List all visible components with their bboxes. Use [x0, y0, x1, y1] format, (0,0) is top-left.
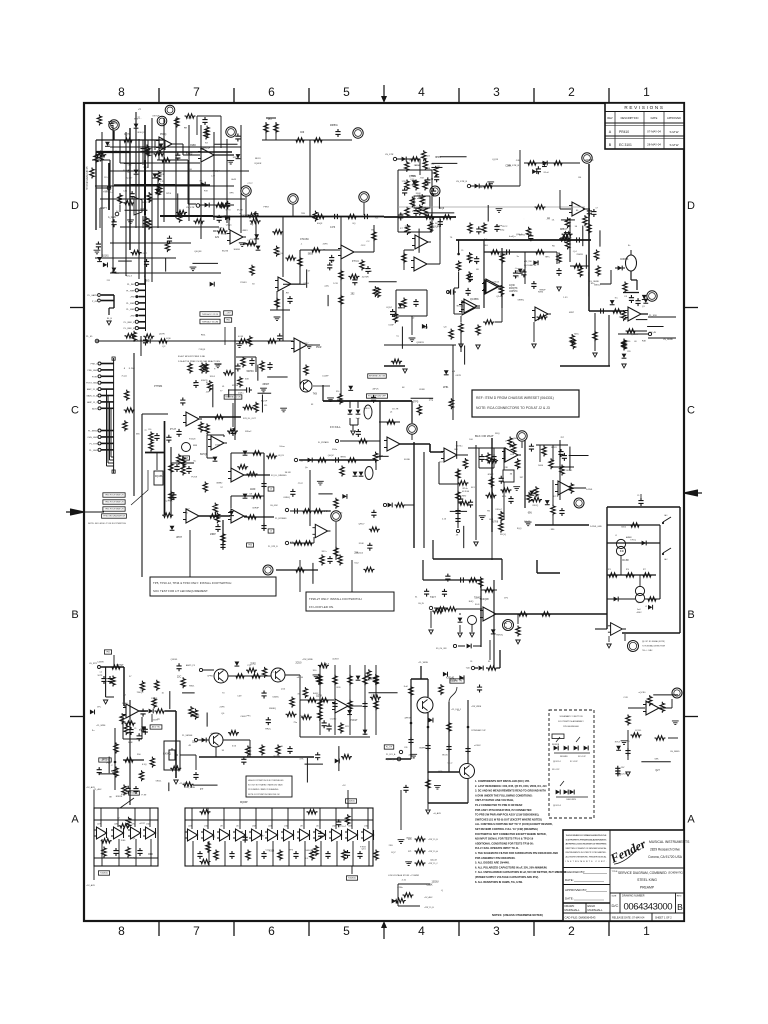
svg-text:CHECKED BY:: CHECKED BY:	[565, 870, 585, 874]
svg-text:PCB ASSY 25TH DISK474500, P2 C: PCB ASSY 25TH DISK474500, P2 CONNECTED	[475, 808, 532, 812]
svg-text:+PL_WIRE: +PL_WIRE	[96, 725, 106, 727]
svg-text:PL_REF: PL_REF	[126, 303, 135, 305]
svg-text:IF ALT MOUNT PREF D BE: IF ALT MOUNT PREF D BE	[178, 355, 206, 358]
svg-text:D M ALTVE PREF I M W CAN REAC: D M ALTVE PREF I M W CAN REACTORS	[178, 360, 221, 363]
svg-text:84u63: 84u63	[524, 521, 531, 523]
svg-text:S M W: S M W	[670, 143, 679, 147]
svg-text:R75: R75	[608, 569, 611, 571]
svg-text:C9: C9	[134, 728, 136, 730]
svg-text:8F4QC: 8F4QC	[137, 132, 144, 134]
svg-text:1.F1: 1.F1	[563, 297, 568, 299]
svg-text:7KK3: 7KK3	[614, 741, 620, 743]
svg-text:745C: 745C	[574, 333, 580, 335]
svg-text:BLK OR WHT: BLK OR WHT	[475, 434, 494, 438]
svg-text:PL_65: PL_65	[86, 336, 93, 338]
svg-text:K5uuR: K5uuR	[221, 234, 228, 236]
svg-text:4. THE SCHEMATIC FILTER FOR FA: 4. THE SCHEMATIC FILTER FOR FABRICATION …	[475, 851, 558, 855]
svg-text:KD_CH_OFF: KD_CH_OFF	[436, 648, 448, 650]
svg-text:FKC: FKC	[498, 289, 503, 291]
svg-text:C2CRK: C2CRK	[621, 774, 629, 776]
svg-text:CF8R: CF8R	[419, 389, 425, 391]
svg-text:RC LOOP: RC LOOP	[570, 761, 578, 763]
svg-text:FULLY RAIL OPERATE INPUT TO J1: FULLY RAIL OPERATE INPUT TO J1.	[475, 846, 519, 850]
svg-text:2F72Q: 2F72Q	[414, 165, 421, 167]
svg-text:NO INPUT SIGNAL FOR TESTS TP1: NO INPUT SIGNAL FOR TESTS TP1-5 & TP13-1…	[475, 837, 534, 841]
svg-text:NOTES: (UNLESS OTHERWISE NOTE: NOTES: (UNLESS OTHERWISE NOTED)	[492, 913, 543, 917]
svg-text:9QU86.: 9QU86.	[155, 476, 163, 478]
svg-text:0.QKF: 0.QKF	[322, 376, 329, 378]
svg-text:.R5KC: .R5KC	[487, 474, 494, 476]
svg-text:CFR5: CFR5	[207, 675, 213, 677]
svg-text:U4P97C: U4P97C	[509, 291, 518, 293]
svg-text:FX LOOP LED ON.: FX LOOP LED ON.	[309, 605, 334, 609]
svg-text:uRF4K: uRF4K	[404, 718, 411, 720]
svg-text:60QF: 60QF	[317, 223, 323, 225]
svg-text:PL_REF: PL_REF	[126, 290, 135, 292]
svg-text:FX KILL: FX KILL	[330, 425, 341, 429]
svg-text:91F4: 91F4	[210, 376, 216, 378]
svg-text:T4CT: T4CT	[430, 597, 436, 599]
svg-text:R14u: R14u	[463, 488, 469, 490]
svg-text:B: B	[71, 609, 78, 621]
svg-text:PL_RTN: PL_RTN	[90, 443, 98, 445]
svg-text:SOC TEST FOR LIT LED REQUIREME: SOC TEST FOR LIT LED REQUIREMENT.	[153, 589, 208, 593]
svg-text:8P95: 8P95	[435, 157, 441, 159]
svg-text:R77: R77	[643, 569, 646, 571]
svg-text:LN_SEND: LN_SEND	[663, 339, 674, 341]
svg-text:QRC7: QRC7	[358, 524, 365, 526]
svg-text:7R: 7R	[369, 271, 372, 273]
svg-text:D: D	[71, 200, 79, 212]
svg-text:A/DD TSL: A/DD TSL	[152, 726, 160, 729]
svg-text:9.4uu: 9.4uu	[279, 446, 285, 448]
svg-text:8: 8	[118, 85, 125, 99]
svg-text:JA-2: JA-2	[664, 558, 668, 561]
svg-text:85236: 85236	[222, 250, 229, 252]
svg-text:F85u2: F85u2	[245, 431, 252, 433]
svg-text:4Q70R: 4Q70R	[362, 277, 369, 279]
svg-text:PRE_C: PRE_C	[91, 364, 98, 366]
svg-text:+PL_WIRE: +PL_WIRE	[418, 662, 429, 664]
svg-text:43 RGE: 43 RGE	[462, 491, 470, 493]
svg-text:u5440: u5440	[210, 733, 217, 735]
svg-text:RR: RR	[184, 127, 188, 129]
svg-text:CC1R.: CC1R.	[635, 730, 642, 732]
svg-text:2CU0: 2CU0	[295, 662, 302, 664]
svg-text:C459K: C459K	[97, 662, 104, 664]
svg-text:KR0K: KR0K	[140, 209, 146, 211]
svg-text:PL_DLY_A: PL_DLY_A	[386, 753, 396, 756]
svg-text:0R97: 0R97	[569, 312, 575, 314]
svg-text:C.P3: C.P3	[330, 227, 336, 229]
svg-text:SCHEMATIC 3 BUTTON: SCHEMATIC 3 BUTTON	[560, 715, 583, 718]
svg-text:CH_SEND: CH_SEND	[670, 751, 680, 753]
svg-text:(3) ROD-3: (3) ROD-3	[553, 805, 561, 807]
svg-text:7: 7	[193, 85, 200, 99]
svg-text:.Q: .Q	[441, 890, 444, 892]
svg-text:8. ALL RESISTORS IN OHMS, 5%,: 8. ALL RESISTORS IN OHMS, 5%, 1/4W.	[475, 880, 523, 884]
svg-text:FX LOOP: FX LOOP	[552, 769, 560, 771]
svg-text:4: 4	[418, 924, 425, 938]
svg-text:EC 3101: EC 3101	[619, 143, 632, 147]
svg-text:PL_REF_F: PL_REF_F	[124, 322, 135, 324]
svg-text:FQC6: FQC6	[468, 257, 475, 259]
svg-text:1K.7R: 1K.7R	[392, 409, 398, 411]
svg-text:F0.F.: F0.F.	[475, 604, 480, 606]
svg-text:(SCHEMATIC): (SCHEMATIC)	[668, 872, 683, 875]
svg-text:REVISIONS: REVISIONS	[624, 105, 664, 110]
svg-text:PL_BYPASS: PL_BYPASS	[275, 517, 287, 520]
svg-text:R4K: R4K	[642, 341, 647, 343]
svg-text:BLK: BLK	[484, 245, 489, 247]
svg-text:F..99: F..99	[142, 794, 148, 796]
svg-text:F567: F567	[412, 211, 418, 213]
svg-text:MARSHALL: MARSHALL	[565, 908, 581, 912]
svg-text:1CR: 1CR	[333, 283, 338, 285]
svg-text:A DVM UNDER THE FOLLOWING COND: A DVM UNDER THE FOLLOWING CONDITIONS:	[475, 793, 533, 797]
svg-text:CH_IN: CH_IN	[418, 603, 424, 605]
svg-text:ADDITIONAL CONDITIONS FOR TEST: ADDITIONAL CONDITIONS FOR TESTS TP16-50:	[475, 841, 534, 845]
svg-text:TLA300L: TLA300L	[100, 872, 109, 875]
svg-text:(3) ROD-1: (3) ROD-1	[553, 761, 561, 763]
svg-text:CT1C6C: CT1C6C	[300, 239, 309, 241]
svg-text:CAD FILE: DM00064343: CAD FILE: DM00064343	[565, 916, 596, 920]
svg-text:F9K9: F9K9	[264, 207, 270, 209]
svg-text:FC.8: FC.8	[553, 496, 559, 498]
svg-text:TLA300L: TLA300L	[348, 877, 357, 880]
svg-text:LN_STR: LN_STR	[385, 154, 394, 156]
svg-text:APPROVED: APPROVED	[667, 117, 681, 120]
svg-text:.54PKC: .54PKC	[246, 371, 254, 373]
svg-text:REVERB: REVERB	[552, 744, 560, 746]
svg-text:KQ57: KQ57	[386, 307, 392, 309]
svg-text:42.7: 42.7	[515, 277, 520, 279]
svg-text:KC: KC	[615, 297, 618, 299]
svg-text:2Q4FR: 2Q4FR	[254, 163, 261, 165]
svg-text:77KQ: 77KQ	[630, 540, 636, 542]
svg-text:2: 2	[568, 924, 575, 938]
svg-text:K30140: K30140	[446, 678, 455, 680]
svg-text:F10F: F10F	[359, 543, 365, 545]
svg-text:C30: C30	[148, 429, 151, 431]
svg-text:INSTRUMENTS CORP.: INSTRUMENTS CORP.	[566, 861, 607, 863]
svg-text:3FQQ: 3FQQ	[500, 534, 506, 536]
svg-text:2829 Research Drive: 2829 Research Drive	[650, 848, 680, 852]
svg-text:97F0: 97F0	[166, 193, 172, 195]
svg-text:4KK: 4KK	[168, 501, 173, 503]
svg-text:61PQU: 61PQU	[200, 454, 208, 456]
svg-text:REF: ITEM D FROM CHASSIS WIRE: REF: ITEM D FROM CHASSIS WIRESET (064331…	[476, 396, 554, 400]
svg-text:0u4Qu: 0u4Qu	[509, 236, 516, 238]
svg-text:5684: 5684	[538, 465, 544, 467]
svg-text:C/PWR AMP CLIP: C/PWR AMP CLIP	[471, 729, 487, 732]
svg-text:PWR: PWR	[316, 347, 322, 349]
svg-text:4: 4	[418, 85, 425, 99]
svg-text:215K3: 215K3	[240, 282, 247, 284]
svg-text:RQ06P: RQ06P	[240, 802, 248, 804]
svg-text:+5V_WIRE: +5V_WIRE	[185, 787, 196, 789]
svg-text:AMP1_P5: AMP1_P5	[186, 664, 196, 667]
svg-text:R44C: R44C	[313, 693, 319, 695]
svg-text:867Q: 867Q	[130, 858, 136, 860]
svg-text:63F.8: 63F.8	[304, 283, 310, 285]
svg-text:CQ: CQ	[164, 500, 168, 502]
svg-text:7QR: 7QR	[238, 831, 243, 833]
svg-text:9R89.: 9R89.	[340, 457, 346, 459]
svg-text:D-PHS: D-PHS	[586, 489, 593, 491]
svg-text:C58K: C58K	[505, 166, 511, 168]
svg-text:0064343000: 0064343000	[624, 902, 673, 913]
svg-text:AUX1: AUX1	[92, 407, 98, 410]
svg-text:PREAMP: PREAMP	[640, 886, 655, 890]
svg-text:PCK1T: PCK1T	[350, 720, 358, 722]
svg-text:5uK1: 5uK1	[399, 214, 405, 216]
svg-text:9990F: 9990F	[539, 290, 546, 292]
svg-text:Q27: Q27	[655, 770, 660, 772]
svg-text:6K.98: 6K.98	[237, 210, 243, 212]
svg-text:+PW_WIRE: +PW_WIRE	[302, 659, 313, 661]
svg-text:B: B	[687, 609, 694, 621]
svg-text:PL_REF: PL_REF	[126, 309, 135, 311]
svg-text:6. ALL POLARIZED CAPACITORS IN: 6. ALL POLARIZED CAPACITORS IN uF, 25V, …	[475, 865, 548, 869]
svg-text:L1: L1	[615, 535, 617, 537]
svg-text:805u1: 805u1	[566, 470, 573, 472]
svg-text:R1K8: R1K8	[533, 262, 539, 264]
svg-text:C: C	[71, 405, 79, 417]
svg-text:K918: K918	[269, 851, 275, 853]
svg-text:82u87: 82u87	[423, 214, 430, 216]
svg-text:713QK: 713QK	[198, 349, 205, 351]
svg-text:LN_STR_B: LN_STR_B	[456, 181, 468, 183]
svg-text:UP9T: UP9T	[176, 537, 182, 539]
svg-text:LN_STR: LN_STR	[186, 207, 195, 209]
svg-text:DATE:: DATE:	[565, 897, 574, 901]
svg-text:CCK: CCK	[623, 697, 628, 699]
svg-text:5C: 5C	[193, 461, 196, 463]
svg-text:.67K: .67K	[299, 758, 304, 760]
svg-text:22C: 22C	[177, 676, 182, 678]
svg-text:PL_GND: PL_GND	[89, 450, 98, 452]
svg-text:QC: QC	[162, 346, 166, 348]
svg-text:TLA300L: TLA300L	[130, 792, 138, 795]
svg-text:QQ19: QQ19	[492, 159, 499, 161]
svg-text:83CQ: 83CQ	[533, 505, 539, 507]
svg-text:3.46F: 3.46F	[388, 324, 394, 326]
svg-text:R821: R821	[189, 685, 195, 687]
svg-text:81u4: 81u4	[544, 172, 550, 174]
svg-text:K927u: K927u	[233, 157, 240, 159]
svg-text:R0K9u: R0K9u	[496, 634, 503, 636]
svg-text:RR2u: RR2u	[265, 729, 271, 731]
svg-text:CKC: CKC	[361, 245, 366, 247]
svg-text:436C9: 436C9	[201, 380, 208, 382]
svg-text:2.K65: 2.K65	[409, 159, 415, 161]
svg-text:POST_GND: POST_GND	[86, 383, 98, 385]
svg-text:QRR33: QRR33	[416, 342, 424, 344]
svg-text:ALL CONTROLS FORTUNE SET TO '0: ALL CONTROLS FORTUNE SET TO '0' (CCW) EX…	[475, 822, 553, 826]
svg-text:K9.: K9.	[264, 405, 268, 407]
svg-text:836RQ: 836RQ	[269, 708, 276, 710]
svg-text:6: 6	[268, 924, 275, 938]
svg-text:RELEASE DATE: 07-MAY-04: RELEASE DATE: 07-MAY-04	[612, 917, 645, 920]
svg-text:RRK: RRK	[148, 854, 153, 856]
svg-text:R66.: R66.	[201, 334, 206, 336]
svg-text:F42u8: F42u8	[189, 439, 196, 441]
svg-text:1QKu: 1QKu	[238, 393, 244, 395]
svg-text:PL_STR_B: PL_STR_B	[268, 546, 278, 548]
svg-text:D: D	[687, 200, 695, 212]
svg-text:C03P16: C03P16	[620, 259, 629, 261]
svg-text:444C: 444C	[636, 612, 642, 614]
svg-text:P1-2 CONNECTED TO PRE D OR REA: P1-2 CONNECTED TO PRE D OR REAR	[475, 803, 523, 807]
svg-text:00Q5: 00Q5	[337, 399, 343, 401]
svg-text:49R3: 49R3	[242, 230, 248, 232]
svg-text:2K5: 2K5	[145, 281, 150, 283]
svg-text:6: 6	[268, 85, 275, 99]
svg-text:FX LOOP LED OFF: FX LOOP LED OFF	[368, 396, 386, 398]
svg-text:868FF: 868FF	[419, 748, 426, 750]
svg-text:ATE_TED: ATE_TED	[524, 260, 533, 263]
svg-text:UNIT AT RATED LINE VOLTAGE,: UNIT AT RATED LINE VOLTAGE,	[475, 798, 514, 802]
svg-text:68K12: 68K12	[594, 284, 601, 286]
svg-text:DRAWING NUMBER: DRAWING NUMBER	[622, 895, 645, 898]
svg-text:7F4QC: 7F4QC	[137, 692, 144, 694]
svg-text:98.05: 98.05	[442, 754, 448, 756]
svg-text:PRE_GND: PRE_GND	[87, 370, 98, 372]
svg-text:THE INFORMATION CONTAINED HERE: THE INFORMATION CONTAINED HEREWITH IS TH…	[566, 834, 608, 837]
svg-text:uu8u: uu8u	[324, 285, 330, 287]
svg-text:REV: REV	[607, 116, 613, 120]
svg-text:13.: 13.	[552, 220, 555, 222]
svg-text:02K37: 02K37	[121, 794, 128, 796]
svg-text:+PW_15_B: +PW_15_B	[428, 839, 438, 841]
svg-text:JA-1: JA-1	[664, 514, 668, 517]
svg-text:28-MAY-04: 28-MAY-04	[647, 142, 661, 146]
svg-text:3: 3	[493, 924, 500, 938]
svg-text:DESCRIPTION: DESCRIPTION	[621, 116, 639, 120]
svg-text:A_GND: A_GND	[108, 216, 116, 219]
svg-text:78Fu: 78Fu	[545, 257, 551, 259]
svg-text:ALL RIGHTS RESERVED. FENDER MU: ALL RIGHTS RESERVED. FENDER MUSICAL	[566, 856, 608, 859]
svg-text:79.: 79.	[212, 837, 216, 839]
svg-text:Q67R: Q67R	[159, 333, 165, 335]
svg-text:2: 2	[568, 85, 575, 99]
svg-text:36.5R: 36.5R	[285, 472, 291, 474]
svg-text:NOTE: RCA CONNECTORS TO PCB AT: NOTE: RCA CONNECTORS TO PCB AT J2 & J3	[476, 406, 550, 410]
svg-text:SHEET 1 OF 2: SHEET 1 OF 2	[655, 917, 672, 920]
svg-text:8UR: 8UR	[423, 328, 428, 330]
svg-text:6C0Q08: 6C0Q08	[480, 599, 489, 601]
svg-text:17Q: 17Q	[429, 399, 434, 401]
svg-text:Q4Q58: Q4Q58	[194, 251, 202, 253]
svg-text:CHN_GND: CHN_GND	[87, 437, 98, 439]
svg-text:9KQ35: 9KQ35	[456, 305, 464, 307]
svg-text:TP34 FOOTSWITCH: TP34 FOOTSWITCH	[105, 502, 124, 504]
svg-text:Q5395: Q5395	[631, 334, 638, 336]
svg-text:+PW_WIRE: +PW_WIRE	[471, 706, 482, 708]
svg-text:5: 5	[343, 85, 350, 99]
svg-text:C26: C26	[404, 747, 407, 749]
svg-text:CC.2: CC.2	[447, 762, 453, 764]
svg-text:483QTK: 483QTK	[509, 288, 518, 290]
svg-text:CH_GN2: CH_GN2	[270, 505, 278, 507]
svg-text:488531: 488531	[330, 125, 338, 127]
svg-text:7Q9.3: 7Q9.3	[368, 679, 375, 681]
svg-text:0R: 0R	[476, 269, 479, 271]
svg-text:R3818: R3818	[116, 796, 123, 798]
svg-text:RRQK: RRQK	[112, 123, 119, 125]
svg-text:22F6: 22F6	[220, 707, 226, 709]
svg-text:C2Ru: C2Ru	[397, 887, 403, 889]
svg-text:+PW_15_C: +PW_15_C	[428, 863, 438, 865]
svg-text:+5V_AUX: +5V_AUX	[424, 896, 433, 899]
svg-text:2. LAST REFERENCE: C80, R45, Q: 2. LAST REFERENCE: C80, R45, Q5 P4, CR4,…	[475, 784, 547, 788]
svg-text:7C4.: 7C4.	[300, 715, 305, 717]
svg-text:uK534: uK534	[297, 677, 304, 679]
svg-text:REVERB LED ON: REVERB LED ON	[369, 376, 386, 378]
svg-text:3TP5: 3TP5	[413, 401, 419, 403]
svg-text:uQC80: uQC80	[638, 692, 646, 694]
svg-text:PL_SENSE: PL_SENSE	[182, 735, 193, 737]
svg-text:C5410: C5410	[330, 719, 337, 721]
svg-text:00820: 00820	[363, 408, 370, 410]
svg-text:.24K: .24K	[515, 160, 520, 162]
svg-text:57.: 57.	[108, 145, 111, 147]
svg-text:D/C: D/C	[612, 903, 619, 908]
svg-text:NOTE: NO LEDS LIT ON FOOTSWIT: NOTE: NO LEDS LIT ON FOOTSWITCH	[88, 523, 126, 525]
svg-text:R6: R6	[488, 661, 490, 663]
svg-text:8C6u6: 8C6u6	[357, 552, 364, 554]
svg-text:2.205: 2.205	[371, 695, 377, 697]
svg-text:C9: C9	[461, 250, 463, 252]
svg-text:559TT: 559TT	[100, 208, 107, 210]
svg-text:057R: 057R	[456, 375, 462, 377]
svg-text:1679: 1679	[97, 675, 103, 677]
svg-text:HIGH FOOTSWITCH IS NOT INSTALL: HIGH FOOTSWITCH IS NOT INSTALLED	[248, 779, 284, 782]
svg-text:7086: 7086	[120, 840, 126, 842]
svg-text:C6: C6	[470, 661, 472, 663]
svg-text:58K: 58K	[655, 759, 659, 761]
svg-text:3. DC AND NO MEASUREMENTS READ: 3. DC AND NO MEASUREMENTS READ TO GROUND…	[475, 789, 546, 793]
svg-text:R4Q: R4Q	[469, 601, 474, 603]
svg-text:CQ: CQ	[265, 850, 269, 852]
svg-text:SET REVERB CONTROL FULL '10' (: SET REVERB CONTROL FULL '10' (CW) (DRAWI…	[475, 827, 538, 831]
svg-text:TO IN SIGNAL UNITED PUSH: TO IN SIGNAL UNITED PUSH	[642, 645, 666, 648]
svg-text:0409R9: 0409R9	[242, 215, 251, 217]
svg-text:SIZE: SIZE	[612, 896, 617, 898]
svg-text:KLINE: KLINE	[404, 459, 410, 461]
svg-text:2P72: 2P72	[102, 760, 108, 762]
svg-text:P_65: P_65	[92, 301, 98, 303]
svg-text:Q2T8: Q2T8	[316, 695, 322, 697]
svg-text:CQ6K: CQ6K	[426, 884, 433, 886]
svg-text:MARSHALL: MARSHALL	[588, 908, 604, 912]
svg-text:22 IN RATED / RATE 23 FLASHIN: 22 IN RATED / RATE 23 FLASHING	[248, 788, 279, 791]
svg-text:6u782: 6u782	[519, 235, 526, 237]
svg-text:3156: 3156	[390, 361, 396, 363]
svg-text:.FF1: .FF1	[246, 715, 251, 717]
svg-text:SERVICE DIAGRAM, COMBINED: SERVICE DIAGRAM, COMBINED	[618, 871, 667, 875]
svg-text:KQ6: KQ6	[166, 338, 171, 340]
svg-text:2F8.: 2F8.	[389, 845, 394, 847]
svg-text:STEEL KING: STEEL KING	[637, 878, 657, 882]
svg-text:uKC: uKC	[317, 680, 322, 682]
svg-text:27C: 27C	[247, 665, 251, 667]
svg-text:64.1.: 64.1.	[198, 427, 203, 429]
svg-text:R71: R71	[408, 851, 411, 853]
svg-text:F.K94: F.K94	[360, 846, 366, 848]
svg-text:SO OUT NOT RATED / RATE LED G: SO OUT NOT RATED / RATE LED GAIN	[248, 784, 283, 787]
